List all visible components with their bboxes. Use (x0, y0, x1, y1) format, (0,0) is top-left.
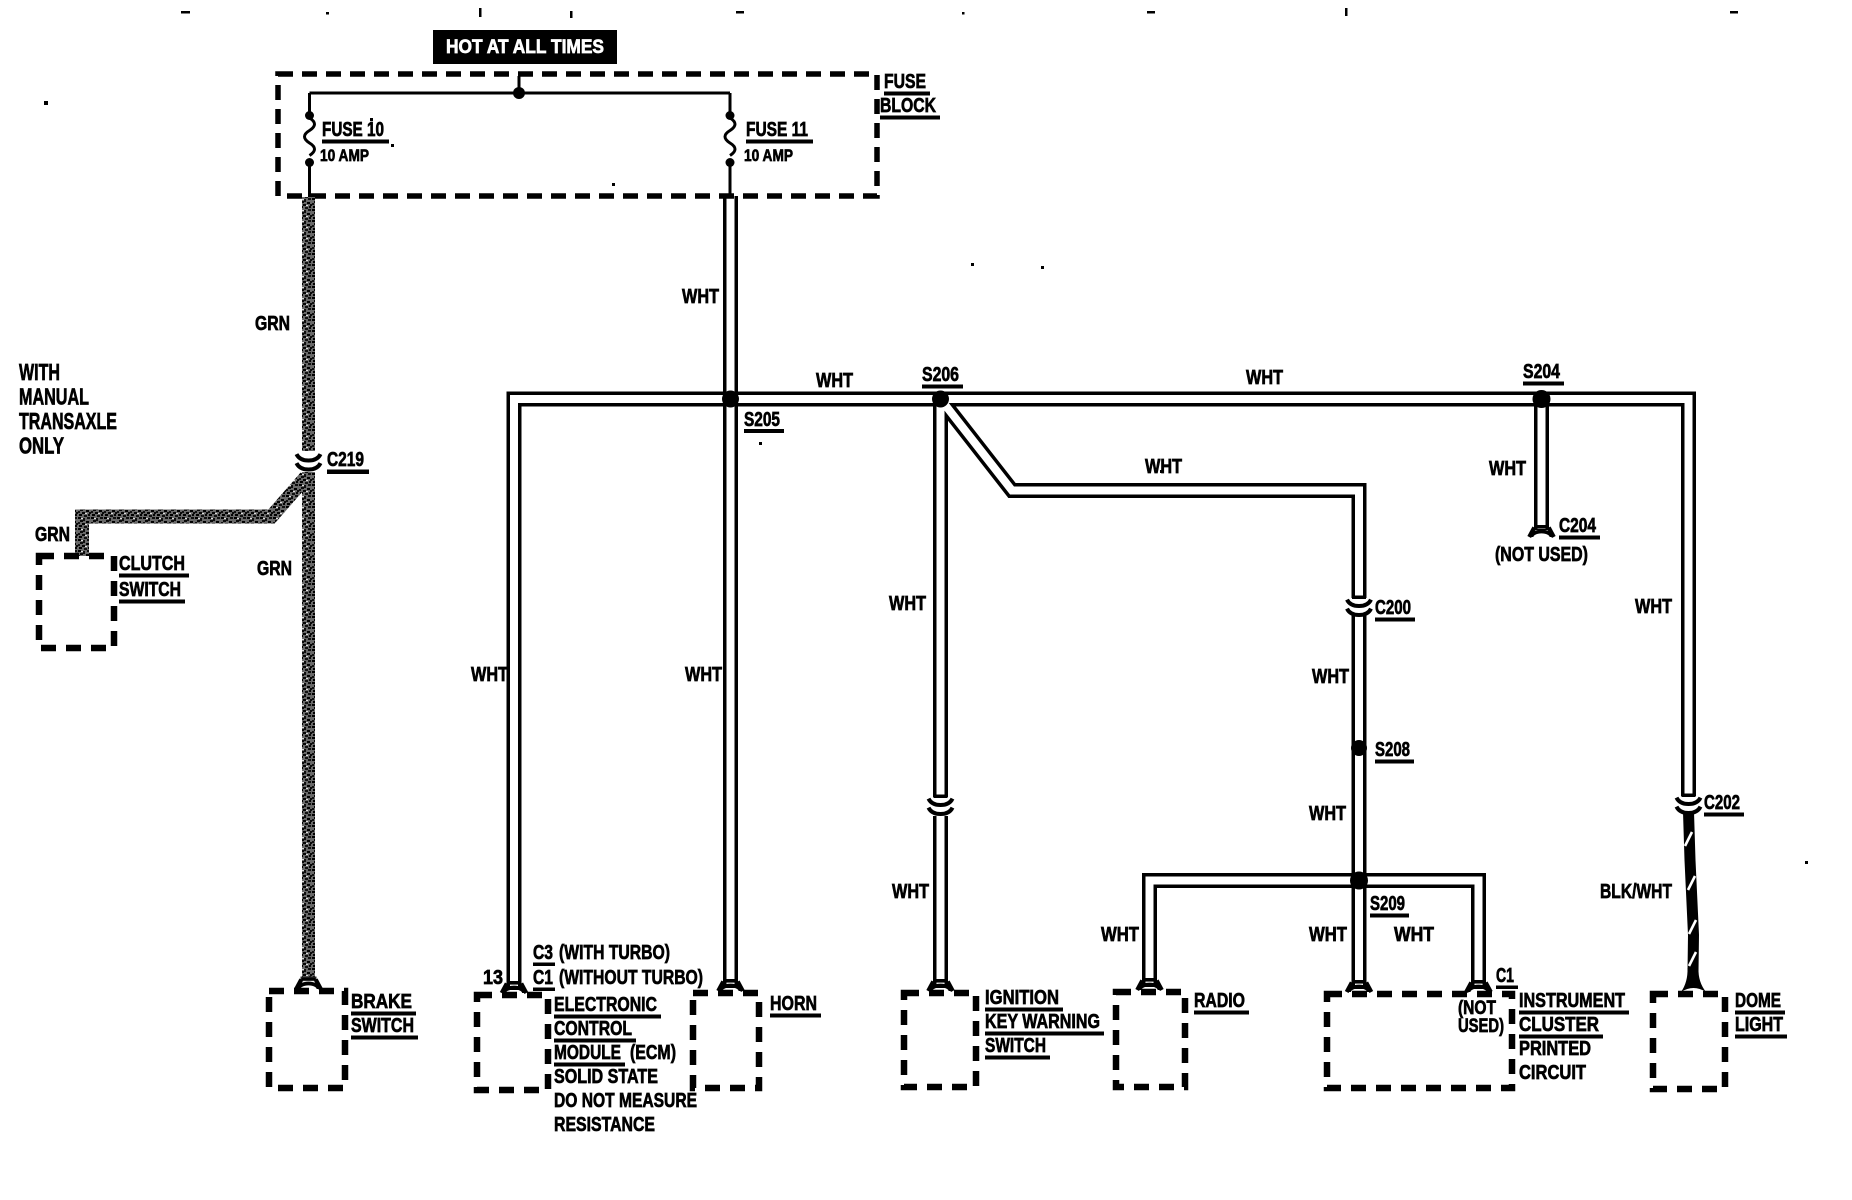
connector C200 (1347, 600, 1371, 615)
svg-text:RESISTANCE: RESISTANCE (554, 1114, 655, 1136)
svg-text:GRN: GRN (35, 524, 70, 546)
scan artifact tick marks top margin (44, 8, 1808, 864)
svg-text:SWITCH: SWITCH (119, 579, 181, 601)
svg-text:WHT: WHT (1101, 924, 1139, 946)
svg-text:S206: S206 (922, 364, 959, 386)
junction S204 (1533, 390, 1551, 408)
svg-text:C1: C1 (533, 967, 553, 989)
wire (1150, 881, 1360, 988)
svg-text:WHT: WHT (1309, 803, 1346, 825)
clutch switch box (39, 556, 114, 648)
label WITH MANUAL TRANSAXLE ONLY (19, 359, 117, 459)
wire: fuse block internal bus (310, 92, 731, 95)
ignition terminal (928, 979, 953, 991)
svg-text:WHT: WHT (1145, 456, 1182, 478)
svg-text:WHT: WHT (471, 664, 508, 686)
brake switch terminal cup (296, 977, 321, 989)
svg-text:C200: C200 (1375, 597, 1411, 619)
svg-text:KEY WARNING: KEY WARNING (985, 1011, 1100, 1033)
wire (82, 477, 306, 556)
svg-text:RADIO: RADIO (1194, 990, 1245, 1012)
radio box (1116, 992, 1185, 1087)
svg-text:MODULE: MODULE (554, 1042, 621, 1064)
svg-text:CONTROL: CONTROL (554, 1018, 632, 1040)
svg-text:WHT: WHT (816, 370, 853, 392)
white gaps for inline connectors (928, 797, 953, 816)
dome light box (1653, 994, 1725, 1089)
cluster C1 terminal (1466, 980, 1491, 992)
svg-text:10 AMP: 10 AMP (320, 146, 369, 165)
connector C204 (not used) (1529, 525, 1554, 537)
svg-text:WHT: WHT (1246, 367, 1283, 389)
fuse 11 (725, 93, 735, 197)
horn box (693, 993, 759, 1088)
hot at all times banner (433, 30, 617, 64)
cluster terminal (1347, 980, 1372, 992)
svg-text:HOT AT ALL TIMES: HOT AT ALL TIMES (446, 37, 604, 58)
connector C219 (295, 452, 322, 471)
svg-text:C3: C3 (533, 942, 553, 964)
svg-text:C202: C202 (1704, 792, 1740, 814)
wire (723, 196, 738, 988)
svg-text:CIRCUIT: CIRCUIT (1519, 1062, 1586, 1084)
radio terminal (1137, 978, 1162, 990)
svg-text:PRINTED: PRINTED (1519, 1038, 1591, 1060)
svg-text:ELECTRONIC: ELECTRONIC (554, 994, 657, 1016)
svg-text:SWITCH: SWITCH (351, 1015, 414, 1037)
svg-text:C204: C204 (1559, 515, 1597, 537)
svg-text:WHT: WHT (1312, 666, 1349, 688)
wire (933, 399, 948, 988)
svg-text:WHT: WHT (682, 286, 719, 308)
svg-text:USED): USED) (1458, 1016, 1504, 1037)
inline connector on ignition wire (929, 799, 953, 814)
svg-text:S205: S205 (744, 409, 780, 431)
wire (1534, 399, 1549, 530)
instrument cluster box (1327, 994, 1512, 1088)
svg-text:ONLY: ONLY (19, 433, 64, 459)
svg-text:BLOCK: BLOCK (880, 95, 936, 117)
wire (514, 399, 1689, 990)
svg-text:(ECM): (ECM) (630, 1042, 676, 1064)
wire GRN (302, 197, 315, 451)
svg-text:BRAKE: BRAKE (351, 991, 412, 1013)
fuse 10 (305, 93, 315, 197)
ECM terminal (502, 981, 527, 993)
svg-text:WHT: WHT (1635, 596, 1672, 618)
WHT labels (471, 286, 1672, 946)
svg-text:DO NOT MEASURE: DO NOT MEASURE (554, 1090, 697, 1112)
svg-text:TRANSAXLE: TRANSAXLE (19, 408, 117, 434)
junction S208 (1351, 740, 1367, 756)
brake switch box (269, 991, 345, 1088)
svg-text:WHT: WHT (685, 664, 722, 686)
junction S209 (1350, 872, 1368, 890)
svg-text:DOME: DOME (1735, 990, 1781, 1012)
svg-text:13: 13 (483, 967, 503, 989)
svg-text:FUSE 11: FUSE 11 (746, 119, 808, 141)
dome light terminal flare (1681, 968, 1706, 992)
fuse block (278, 74, 877, 196)
svg-text:FUSE: FUSE (884, 71, 926, 93)
svg-text:WHT: WHT (889, 593, 926, 615)
wire (1359, 881, 1479, 990)
svg-text:IGNITION: IGNITION (985, 987, 1059, 1009)
svg-text:LIGHT: LIGHT (1735, 1014, 1783, 1036)
svg-text:(WITH TURBO): (WITH TURBO) (559, 942, 670, 964)
junction S206 (932, 391, 949, 408)
svg-text:WHT: WHT (892, 881, 929, 903)
svg-text:SOLID STATE: SOLID STATE (554, 1066, 658, 1088)
svg-text:S209: S209 (1370, 893, 1405, 915)
wire (302, 472, 315, 977)
ignition key warning switch box (904, 993, 976, 1087)
wire (941, 399, 1360, 989)
junction dot (513, 87, 525, 99)
svg-text:WITH: WITH (19, 359, 60, 385)
svg-text:SWITCH: SWITCH (985, 1035, 1046, 1057)
svg-text:MANUAL: MANUAL (19, 384, 89, 410)
connector C202 (1677, 798, 1701, 813)
svg-text:WHT: WHT (1394, 924, 1434, 946)
svg-text:GRN: GRN (255, 313, 290, 335)
junction S205 (722, 391, 739, 408)
svg-text:FUSE 10: FUSE 10 (322, 119, 384, 141)
svg-text:S208: S208 (1375, 739, 1410, 761)
svg-text:WHT: WHT (1489, 458, 1526, 480)
svg-text:C219: C219 (327, 449, 364, 471)
svg-text:HORN: HORN (770, 993, 817, 1015)
svg-text:10 AMP: 10 AMP (744, 146, 793, 165)
wire BLK/WHT (1689, 812, 1694, 972)
svg-text:S204: S204 (1523, 361, 1561, 383)
horn terminal (718, 979, 743, 991)
svg-text:INSTRUMENT: INSTRUMENT (1519, 990, 1625, 1012)
svg-text:WHT: WHT (1309, 924, 1347, 946)
svg-text:GRN: GRN (257, 558, 292, 580)
svg-text:C1: C1 (1496, 965, 1514, 987)
wire (518, 76, 521, 91)
svg-text:(WITHOUT TURBO): (WITHOUT TURBO) (559, 967, 703, 989)
svg-text:BLK/WHT: BLK/WHT (1600, 881, 1672, 903)
ECM box (477, 995, 548, 1090)
svg-text:CLUSTER: CLUSTER (1519, 1014, 1599, 1036)
svg-text:(NOT USED): (NOT USED) (1495, 544, 1588, 566)
svg-text:CLUTCH: CLUTCH (119, 553, 185, 575)
